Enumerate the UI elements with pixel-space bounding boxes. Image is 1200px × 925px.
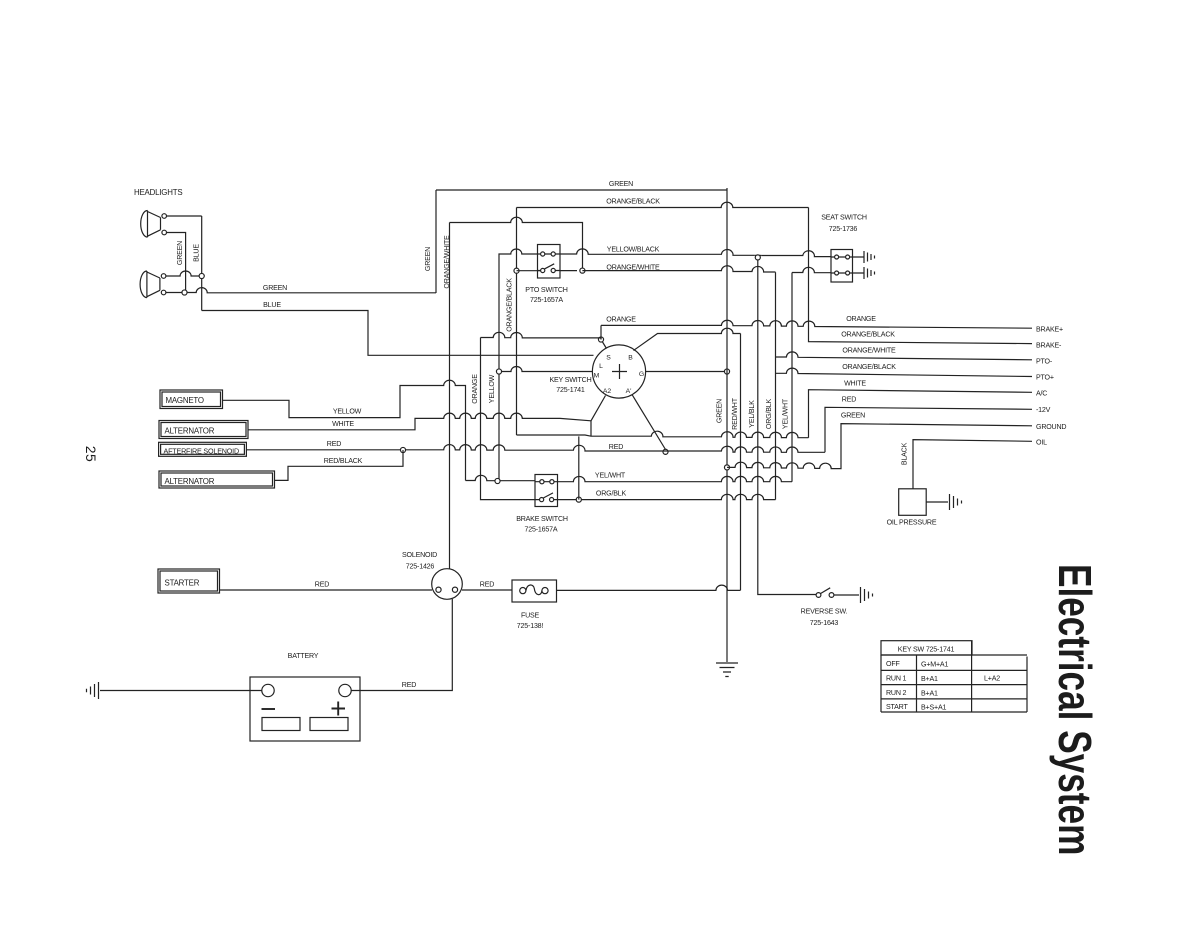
svg-text:PTO+: PTO+ [1036,374,1054,382]
seat switch upper contacts [831,256,864,258]
svg-text:RED: RED [609,443,623,451]
svg-text:725-1736: 725-1736 [829,225,858,233]
svg-text:GREEN: GREEN [716,399,724,423]
wire orange/white row continuing to seat switch area [582,266,775,272]
wire fuse to red/wht bus [557,585,741,590]
wire key M line from yellow bus node [499,367,593,372]
wire battery positive to solenoid [351,599,452,691]
wire key area vertical drop [578,436,580,499]
wire GREEN top rail [436,189,727,191]
starter box [158,569,220,593]
svg-text:S: S [606,355,611,362]
svg-text:RUN 1: RUN 1 [886,675,907,683]
wire key G line to green bus [646,371,728,373]
reverse switch contacts and blade [816,593,821,598]
brake switch upper contacts [535,481,558,483]
headlight lamp 1 (upper) [141,211,167,238]
svg-text:ORG/BLK: ORG/BLK [765,398,773,429]
wire BLUE vertical from lamp1 top terminal [167,216,202,311]
svg-text:725-1657A: 725-1657A [525,526,558,534]
wire org/blk bus (vertical) [775,272,777,499]
svg-text:BLUE: BLUE [263,301,281,309]
wire starter to solenoid [220,589,433,591]
label KEY SWITCH 725-1741 [549,376,591,394]
ground at green bus bottom [716,663,738,677]
headlight lamp 2 (lower) [140,271,166,298]
afterfire solenoid box [159,442,247,456]
PTO switch upper contact row [538,253,560,255]
wire key B diagonal and run to red/wht bus [634,328,741,350]
svg-text:G+M+A1: G+M+A1 [921,661,948,669]
label BLUE (vertical) [193,244,201,262]
battery plus symbol [332,702,346,716]
label YELLOW (vertical, left bus) [488,374,496,403]
svg-text:725-1741: 725-1741 [556,386,585,394]
svg-text:725-1643: 725-1643 [810,619,839,627]
battery minus symbol [262,708,276,710]
svg-text:725-1657A: 725-1657A [530,296,563,304]
svg-text:WHITE: WHITE [844,380,866,388]
wire solenoid to fuse [462,589,512,591]
svg-text:RED: RED [480,581,494,589]
wire white row from PTO bus corner to a/c riser [517,431,809,438]
node red row / A1 [663,449,668,454]
wire orange/white pto- row [776,352,1033,360]
svg-text:REVERSE SW.: REVERSE SW. [801,608,848,616]
wire red/wht bus (vertical) [740,334,742,591]
alternator box (upper) [159,421,248,439]
svg-text:ORANGE/BLACK: ORANGE/BLACK [842,363,896,371]
wire orange output riser [600,325,602,339]
svg-text:GREEN: GREEN [263,284,287,292]
svg-text:Electrical System: Electrical System [1049,564,1101,855]
wire green bus (vertical) [726,188,728,662]
node PTO lower feed [514,268,519,273]
label GREEN (vertical) [176,241,184,265]
svg-text:725-1426: 725-1426 [406,563,435,571]
svg-text:-12V: -12V [1036,406,1051,414]
node yellow bus / yel-wht row [495,478,500,483]
wire orange/black brake- riser and row [809,208,1033,344]
svg-text:START: START [886,703,908,711]
oil pressure box [899,489,927,516]
svg-text:MAGNETO: MAGNETO [166,396,204,405]
brake switch box [535,475,558,507]
svg-text:GREEN: GREEN [176,241,184,265]
label PTO SWITCH 725-1657A [525,286,567,304]
label RED/WHT (bus, vertical) [731,397,739,430]
svg-text:YEL/BLK: YEL/BLK [748,400,756,428]
seat switch lower contacts [831,272,864,274]
wire yel/blk bus (vertical) with reverse switch run [758,257,816,594]
svg-text:ALTERNATOR: ALTERNATOR [165,427,215,436]
svg-text:YELLOW: YELLOW [488,374,496,403]
svg-text:OIL: OIL [1036,439,1047,447]
battery box [250,677,360,741]
brake switch lower contacts and blade [535,493,558,500]
svg-text:KEY SW 725-1741: KEY SW 725-1741 [898,646,955,654]
fuse box [512,580,557,602]
wire ORANGE/BLACK top rail [517,202,809,207]
label YEL/WHT (bus, vertical) [782,398,790,429]
wire BLUE run to key switch L [202,311,594,356]
svg-text:RED/BLACK: RED/BLACK [324,457,363,465]
wire red from afterfire solenoid [246,445,825,453]
wire black riser and oil row [913,440,1032,489]
svg-text:ORANGE: ORANGE [471,374,479,404]
svg-text:OFF: OFF [886,660,900,668]
ground at seat switch upper [864,251,875,263]
svg-text:GREEN: GREEN [841,412,865,420]
svg-text:ORG/BLK: ORG/BLK [596,490,627,498]
wire key A2 diagonal [591,396,606,437]
wire orange/white jumper (PTO feed) [450,217,583,270]
label ORG/BLK (bus, vertical) [765,398,773,429]
svg-text:PTO SWITCH: PTO SWITCH [525,286,567,294]
wire battery negative to ground [100,690,262,692]
svg-text:A/C: A/C [1036,390,1047,398]
label GREEN (bus, vertical) [716,399,724,423]
svg-text:WHITE: WHITE [332,420,354,428]
wire lamp2 upper terminal to node on blue [166,271,202,276]
label REVERSE SW. 725-1643 [801,608,848,628]
solenoid circle [432,569,463,600]
svg-text:RED/WHT: RED/WHT [731,397,739,430]
key switch circle U1 [592,345,645,398]
wire lamp2 lower terminal, green junction, hop over blue, to GREEN run [166,288,436,293]
label SOLENOID 725-1426 [402,551,437,571]
svg-text:RED: RED [315,581,329,589]
label ORANGE/BLACK (vertical, PTO bus) [506,278,514,332]
label SEAT SWITCH 725-1736 [821,214,867,234]
wire yel/wht row (magneto drop to brake switch to bus) [466,475,793,481]
svg-text:ORANGE/WHITE: ORANGE/WHITE [606,264,660,272]
ground at reverse switch [861,587,873,603]
svg-text:KEY SWITCH: KEY SWITCH [549,376,591,384]
wire key A1 diagonal to red node [632,395,666,450]
svg-text:BRAKE SWITCH: BRAKE SWITCH [516,515,568,523]
node on blue vertical [199,273,204,278]
svg-text:RUN 2: RUN 2 [886,689,907,697]
wire red -12v riser and row [825,407,1032,452]
wire red/black from alternator lower [275,450,404,480]
Electrical System title [1049,564,1101,855]
node orange feed [598,337,603,342]
wire GREEN riser to top rail [435,190,437,293]
svg-text:BLACK: BLACK [901,442,909,465]
key switch table [881,641,1027,712]
label ORANGE/WHITE (vertical) [443,235,451,289]
svg-text:GROUND: GROUND [1036,423,1066,431]
svg-text:ORANGE/BLACK: ORANGE/BLACK [606,198,660,206]
svg-text:YEL/WHT: YEL/WHT [782,398,790,429]
label BLACK (vertical) [901,442,909,465]
wire key S diagonal to orange node [601,340,607,349]
svg-text:B: B [628,355,633,362]
seat switch box [831,250,853,283]
label BRAKE SWITCH 725-1657A [516,515,568,534]
magneto box [160,390,223,409]
svg-text:B+A1: B+A1 [921,675,938,683]
svg-text:725-138!: 725-138! [517,622,544,630]
svg-text:BLUE: BLUE [193,244,201,262]
wire white a/c riser and row [809,390,1033,438]
svg-text:B+S+A1: B+S+A1 [921,704,946,712]
label ORANGE (vertical, left bus) [471,374,479,404]
svg-text:BRAKE+: BRAKE+ [1036,326,1063,334]
ground at oil pressure [950,494,962,510]
wire orange/white row from node through right contact [517,270,578,272]
svg-text:ORANGE/BLACK: ORANGE/BLACK [841,331,895,339]
page number 25 [83,446,99,463]
wire orange/black pto+ row [776,368,1033,376]
label FUSE 725-1381 [517,612,544,631]
svg-text:GREEN: GREEN [424,247,432,271]
svg-text:A': A' [626,388,632,395]
alternator box (lower) [159,471,275,488]
wire oil pressure to ground [926,501,948,503]
svg-text:RED: RED [327,440,341,448]
wire white from alternator to key A2 [248,413,591,430]
wire yellow bus from PTO upper-left down [499,249,538,482]
ground at battery [87,682,99,699]
svg-text:L: L [599,363,603,370]
node key G / green bus [724,369,729,374]
wire orange/white bus down to solenoid [449,223,451,570]
svg-text:SOLENOID: SOLENOID [402,551,437,559]
svg-text:M: M [594,373,600,380]
svg-text:BATTERY: BATTERY [288,652,319,660]
svg-text:GREEN: GREEN [609,180,633,188]
svg-text:FUSE: FUSE [521,612,540,620]
svg-text:A2: A2 [603,388,612,395]
node yel/blk bus / yellow-black row [755,255,760,260]
svg-text:ORANGE/WHITE: ORANGE/WHITE [842,347,896,355]
key switch center cross [612,364,627,379]
svg-text:OIL PRESSURE: OIL PRESSURE [887,519,937,527]
svg-text:BRAKE-: BRAKE- [1036,342,1062,350]
PTO switch box [538,245,561,279]
svg-text:SEAT SWITCH: SEAT SWITCH [821,214,867,222]
svg-text:YELLOW: YELLOW [333,408,362,416]
svg-text:25: 25 [83,446,99,463]
svg-text:G: G [639,371,644,378]
svg-text:RED: RED [402,681,416,689]
svg-text:YELLOW/BLACK: YELLOW/BLACK [607,246,660,254]
wire GREEN vertical from lamp1 bottom terminal [167,233,186,293]
svg-text:ORANGE: ORANGE [846,315,876,323]
node green bus / green output [724,465,729,470]
node key M / yellow bus [496,369,501,374]
ground at seat switch lower [864,267,875,279]
label GREEN (riser, vertical) [424,247,432,271]
svg-text:AFTERFIRE SOLENOID: AFTERFIRE SOLENOID [164,447,239,456]
fuse element [526,585,542,595]
svg-text:B+A1: B+A1 [921,690,938,698]
svg-text:ORANGE/BLACK: ORANGE/BLACK [506,278,514,332]
wire orange/black bus (PTO) down [516,208,518,436]
svg-text:L+A2: L+A2 [984,675,1000,683]
node on green vertical [182,290,187,295]
node red / red-black [400,447,405,452]
key switch letters [594,355,644,396]
svg-text:ORANGE: ORANGE [606,316,636,324]
PTO switch lower contacts and blade [538,264,560,271]
svg-text:YEL/WHT: YEL/WHT [595,472,626,480]
wire yellow from magneto [223,380,466,480]
svg-text:STARTER: STARTER [165,579,200,588]
output terminal labels right side [1036,326,1066,447]
wire seat lower right segment [792,267,831,272]
wire yel/wht bus (vertical) [791,273,793,482]
svg-text:RED: RED [842,396,856,404]
wire yellow/black output row (PTO to seat switch) [560,249,832,257]
wire ORANGE output row [601,320,1032,328]
node orange/white at x=582 [580,268,585,273]
label YEL/BLK (bus, vertical) [748,400,756,428]
svg-text:ALTERNATOR: ALTERNATOR [165,477,215,486]
wire green ground riser and row [727,424,1032,469]
battery cell rectangles [262,718,300,731]
svg-text:PTO-: PTO- [1036,358,1053,366]
wire org/blk row (orange drop to brake switch to bus) [481,338,776,500]
wire orange bus top run to key node [481,332,602,339]
svg-text:HEADLIGHTS: HEADLIGHTS [134,188,182,197]
node org/blk row / key drop [576,497,581,502]
